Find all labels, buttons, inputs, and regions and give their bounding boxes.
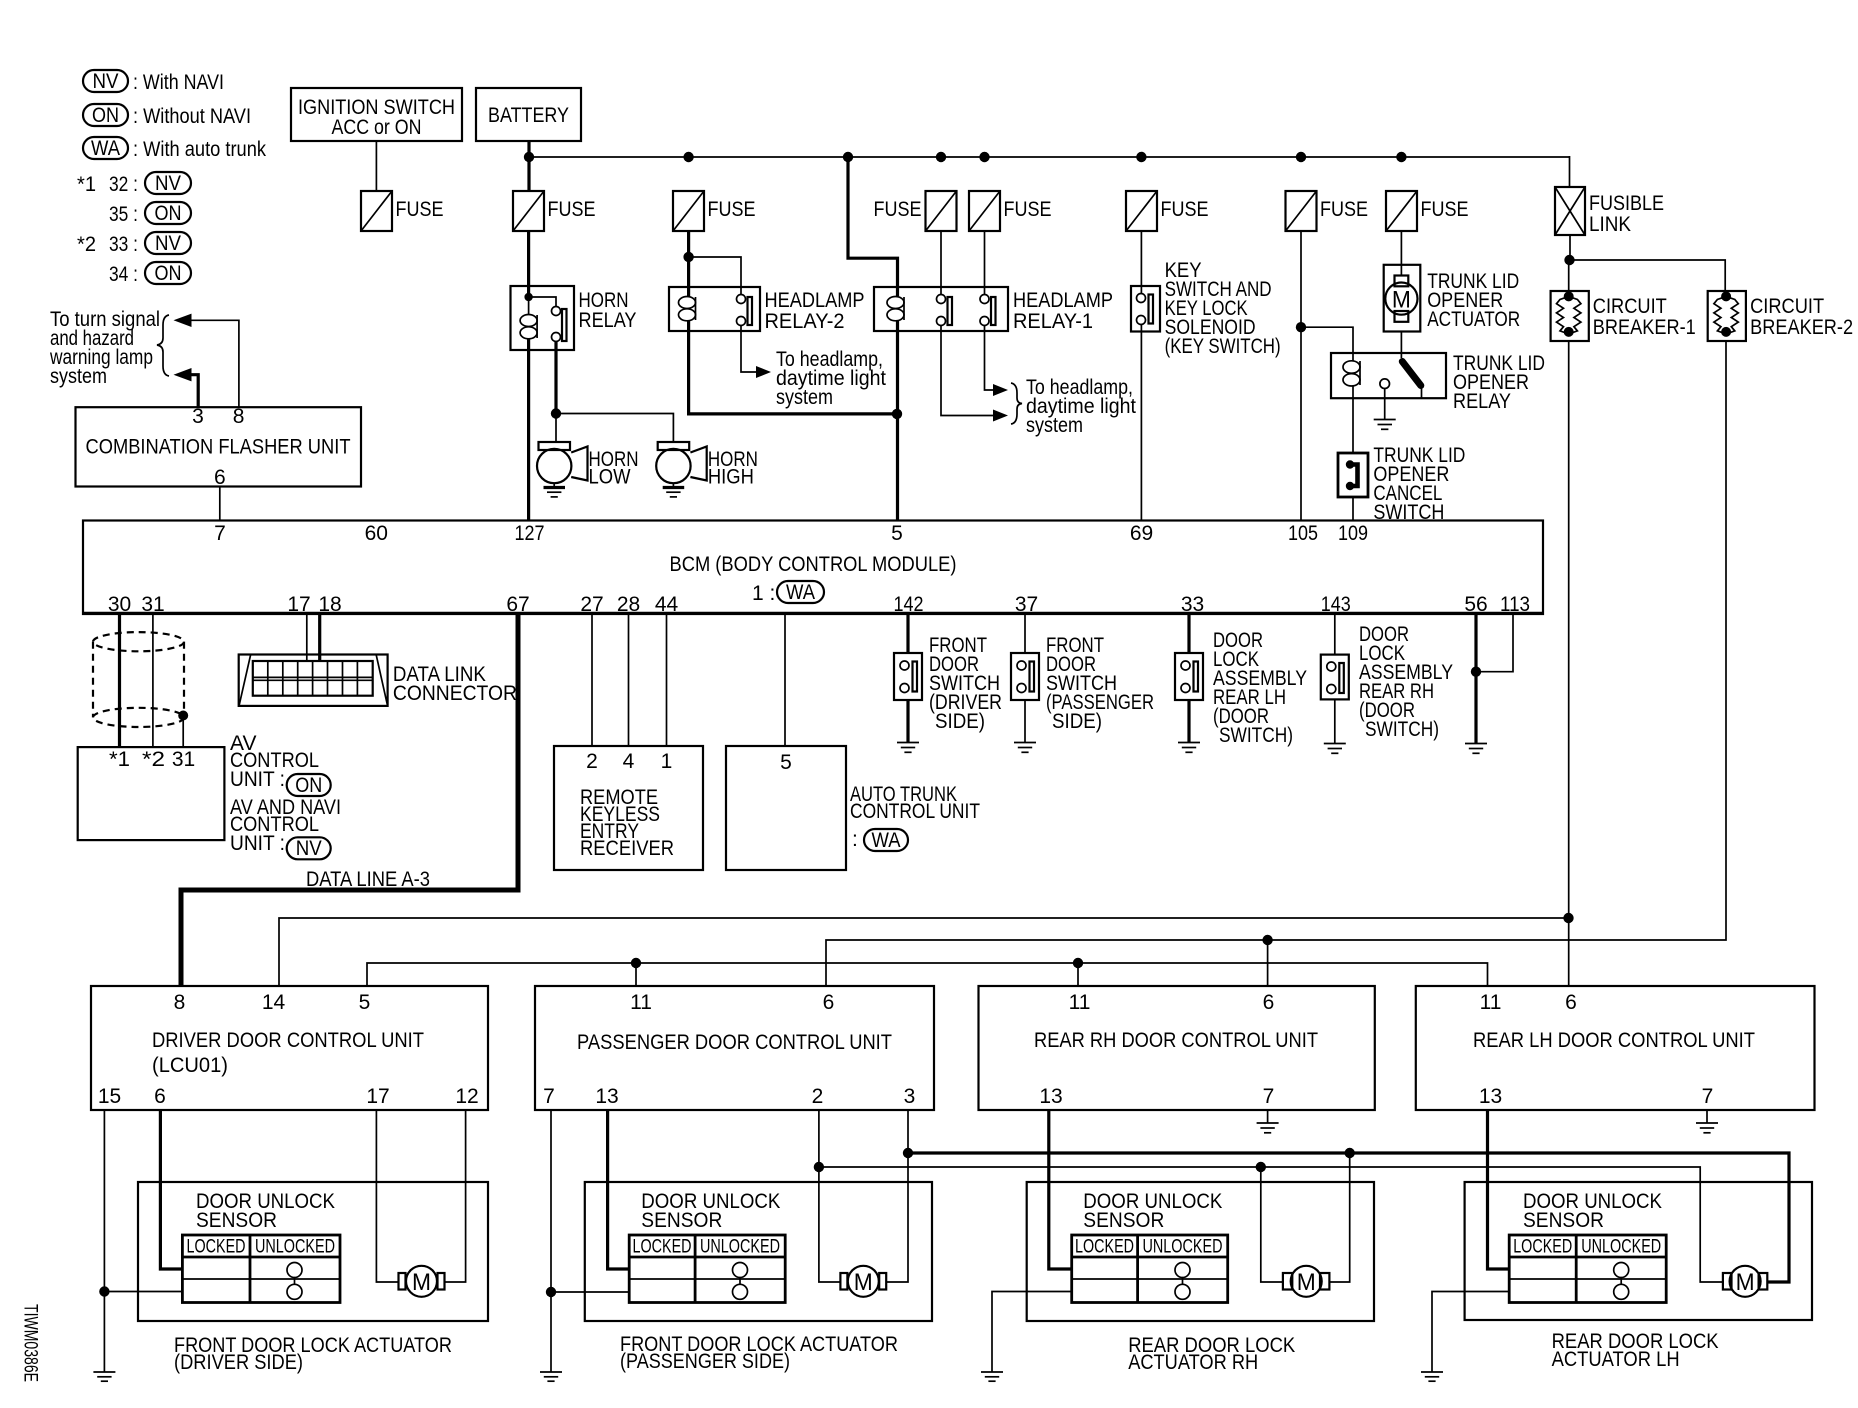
trunk lid opener cancel switch box (1338, 453, 1368, 497)
wire passenger CU 7 to ground and sensor (550, 1110, 552, 1372)
rear RH door motor (1283, 1266, 1330, 1297)
wire fuse F6 to key switch (1140, 231, 1142, 294)
node y1153 rear RH motor (1345, 1148, 1355, 1158)
arrow to headlamp (relay-2) (756, 366, 771, 378)
ground rear RH CU pin 7 (1257, 1110, 1279, 1133)
horn relay contact circles (552, 307, 561, 316)
svg-text:ON: ON (295, 774, 322, 797)
combination flasher unit box (76, 407, 362, 486)
svg-text:WA: WA (91, 137, 120, 160)
node passenger pin7 sensor tap (546, 1287, 556, 1297)
wire key switch to BCM pin 69 (1140, 325, 1142, 521)
svg-text:33: 33 (1181, 593, 1204, 616)
svg-text:7: 7 (1702, 1085, 1714, 1108)
wire junction to circuit breaker-2 (1570, 260, 1726, 291)
svg-text:ON: ON (92, 104, 119, 127)
front door switch passenger side (1011, 653, 1039, 700)
svg-text:5: 5 (891, 522, 903, 545)
node bus at 1401 (1396, 152, 1406, 162)
wire rear RH sensor row2 to ground (992, 1292, 1072, 1372)
svg-text:6: 6 (214, 466, 226, 489)
fusible link (1555, 187, 1585, 235)
passenger sensor contacts (733, 1263, 748, 1300)
wire actuator feed y1167 (819, 1167, 1723, 1282)
node y963 passenger 11 (631, 958, 641, 968)
wire passenger CU 2 to motor (819, 1110, 841, 1282)
svg-text:ACC or ON: ACC or ON (332, 116, 422, 139)
svg-text:COMBINATION FLASHER UNIT: COMBINATION FLASHER UNIT (86, 436, 351, 459)
horn relay internal wire to contact (529, 297, 556, 307)
wire fuse F3 to headlamp relay-2 (687, 231, 690, 296)
arrow to turn signal (upper, from CFU pin 8) (174, 314, 192, 327)
ground rear RH sensor (981, 1372, 1003, 1381)
svg-text:5: 5 (359, 991, 371, 1014)
svg-text:2: 2 (812, 1085, 824, 1108)
AV control unit box (78, 747, 225, 840)
node trunk relay feed (1296, 322, 1306, 332)
rear RH sensor table (1072, 1235, 1228, 1303)
svg-text:7: 7 (543, 1085, 555, 1108)
svg-text:CIRCUIT: CIRCUIT (1593, 295, 1667, 318)
svg-text:SIDE): SIDE) (1052, 710, 1102, 733)
svg-text:: Without NAVI: : Without NAVI (133, 105, 251, 128)
front door lock actuator passenger box (585, 1182, 932, 1321)
svg-text:13: 13 (1479, 1085, 1502, 1108)
key switch and key lock solenoid box (1131, 286, 1160, 332)
trunk relay coil (1343, 361, 1360, 386)
svg-text:56: 56 (1464, 593, 1487, 616)
svg-text:ACTUATOR RH: ACTUATOR RH (1128, 1351, 1258, 1374)
svg-text:: With NAVI: : With NAVI (133, 71, 224, 94)
ground trunk relay contact (1374, 389, 1396, 430)
svg-text:127: 127 (515, 522, 545, 545)
driver sensor table (182, 1235, 340, 1303)
horn relay box (511, 286, 575, 350)
wire cancel switch to BCM pin 109 (1352, 497, 1354, 521)
wire bus y918 driver 14 to CB-1 line (279, 918, 1569, 986)
svg-text:ACTUATOR LH: ACTUATOR LH (1552, 1348, 1680, 1371)
ground driver pin 15 (93, 1372, 115, 1381)
rear RH sensor contacts (1175, 1263, 1190, 1300)
svg-text:14: 14 (262, 991, 286, 1014)
svg-text:UNLOCKED: UNLOCKED (255, 1237, 335, 1258)
driver door control unit box (91, 986, 488, 1110)
wire trunk actuator to relay blade (1400, 332, 1402, 359)
svg-text:RECEIVER: RECEIVER (580, 837, 674, 860)
svg-text:CIRCUIT: CIRCUIT (1750, 295, 1824, 318)
circuit breaker-2 (1708, 291, 1746, 341)
svg-text:RELAY: RELAY (1453, 390, 1511, 413)
wire relay-2 contact to arrow (741, 326, 757, 373)
svg-text:system: system (50, 365, 107, 388)
node y1167 passenger pin 2 (814, 1162, 824, 1172)
svg-text:ON: ON (155, 202, 182, 225)
fuse F6 (key switch) (1126, 191, 1157, 231)
node y940 rear RH 6 (1262, 935, 1272, 945)
svg-text:28: 28 (617, 593, 640, 616)
BCM bottom edge emphasis (83, 612, 1543, 615)
trunk lid opener relay box (1331, 353, 1446, 398)
svg-text:BREAKER-1: BREAKER-1 (1593, 316, 1696, 339)
node relay-2 feed split (683, 252, 693, 262)
wire BCM 142 to driver door switch (thick) (906, 614, 909, 653)
fuse F1 (ignition) (361, 191, 392, 231)
wire BCM 113 to junction (1476, 614, 1513, 672)
wire trunk relay coil to cancel switch (1352, 386, 1354, 453)
svg-text:11: 11 (630, 991, 652, 1014)
wire feed to trunk relay coil (1301, 327, 1353, 361)
shield cylinder around AV wires (93, 632, 184, 727)
wire driver CU 6 to sensor row1 (thick) (160, 1110, 182, 1269)
wire CFU pin 8 to arrow (190, 320, 239, 407)
wire BCM 56 to ground (thick) (1474, 614, 1477, 743)
svg-text:NV: NV (155, 172, 181, 195)
node bus at 688 (683, 152, 693, 162)
wire rear RH CU pin 6 drop (1267, 940, 1269, 986)
rear door lock actuator RH box (1027, 1182, 1374, 1321)
svg-text:*2: *2 (77, 233, 96, 256)
rear door lock actuator LH box (1465, 1182, 1812, 1320)
trunk actuator motor (1385, 276, 1417, 322)
svg-text:(PASSENGER SIDE): (PASSENGER SIDE) (620, 1350, 790, 1373)
svg-text:37: 37 (1015, 593, 1038, 616)
node battery bus junction (524, 152, 534, 162)
svg-text:13: 13 (1039, 1085, 1062, 1108)
ignition switch box (291, 88, 462, 141)
headlamp relay-1 contact A (937, 295, 953, 326)
svg-text:DATA LINE A-3: DATA LINE A-3 (306, 868, 430, 891)
svg-text:FUSE: FUSE (548, 198, 596, 221)
ground BCM 56 (1465, 744, 1487, 754)
svg-text:44: 44 (655, 593, 679, 616)
node y963 rear RH 11 (1073, 958, 1083, 968)
node bus at 941 (936, 152, 946, 162)
wire actuator feed y1153 (thick) (908, 1153, 1789, 1282)
svg-text:system: system (776, 386, 833, 409)
arrow to headlamp upper (relay-1) (993, 384, 1008, 396)
wire BCM 1 to auto trunk control unit (784, 614, 786, 746)
wire passenger CU 13 to sensor row1 (thick) (608, 1110, 630, 1269)
svg-text:RELAY-1: RELAY-1 (1013, 310, 1093, 333)
auto trunk control unit box (726, 746, 846, 870)
svg-text:6: 6 (1263, 991, 1275, 1014)
svg-text:17: 17 (366, 1085, 389, 1108)
svg-text:5: 5 (780, 751, 792, 774)
horn relay coil (520, 297, 537, 339)
wire CB-1 down through node to rear LH CU pin 6 (1568, 341, 1570, 986)
svg-text:FUSE: FUSE (1004, 198, 1052, 221)
ground horn high (663, 483, 685, 497)
front door lock actuator driver box (138, 1182, 488, 1321)
svg-text:3: 3 (904, 1085, 916, 1108)
svg-text:BATTERY: BATTERY (488, 104, 569, 127)
svg-text:CONTROL UNIT: CONTROL UNIT (850, 800, 980, 823)
svg-text:27: 27 (580, 593, 603, 616)
wire fusible link to CB junction (1569, 235, 1571, 260)
ground passenger pin 7 (540, 1372, 562, 1381)
circuit breaker-1 (1551, 291, 1589, 341)
svg-text:HIGH: HIGH (708, 466, 754, 489)
fuse F3 (headlamp relay-2) (673, 191, 704, 231)
arrow to turn signal (lower, from CFU pin 3) (174, 368, 192, 381)
svg-text:PASSENGER DOOR CONTROL UNIT: PASSENGER DOOR CONTROL UNIT (577, 1031, 892, 1054)
svg-text:FUSE: FUSE (1320, 198, 1368, 221)
svg-text:WA: WA (872, 829, 901, 852)
cancel switch symbol (1346, 460, 1358, 490)
wire BCM 143 to rear RH door lock assembly (1334, 614, 1336, 655)
wire horn feed line (556, 414, 673, 443)
svg-text:FUSE: FUSE (874, 198, 922, 221)
svg-text:11: 11 (1480, 991, 1502, 1014)
svg-text:(KEY SWITCH): (KEY SWITCH) (1165, 335, 1281, 358)
trunk lid opener actuator box (1384, 265, 1421, 332)
svg-text:LOCKED: LOCKED (1513, 1237, 1572, 1258)
svg-text:HEADLAMP: HEADLAMP (765, 289, 865, 312)
svg-text:*2: *2 (142, 748, 165, 771)
driver door motor (399, 1266, 445, 1297)
svg-text:RELAY: RELAY (579, 309, 637, 332)
wire fuse F4 to relay-1 contact A (940, 231, 942, 295)
wire horn relay contact down to horn node (554, 342, 557, 414)
node y918 at CB-1 line (1563, 913, 1573, 923)
ground driver door switch (897, 700, 919, 752)
svg-text:4: 4 (623, 750, 635, 773)
passenger door motor (840, 1266, 886, 1297)
svg-text:M: M (1736, 1269, 1755, 1296)
horn low (537, 442, 588, 483)
wire BCM 33 to rear LH door lock assembly (thick) (1187, 614, 1190, 653)
node pin56/113 junction (1471, 667, 1481, 677)
wire CFU pin 6 to BCM pin 7 (219, 487, 221, 521)
wire rear LH CU 13 to sensor row1 (thick) (1488, 1110, 1510, 1269)
svg-text:8: 8 (233, 405, 245, 428)
svg-text:UNIT :: UNIT : (230, 768, 285, 791)
svg-text:30: 30 (108, 593, 131, 616)
svg-text:143: 143 (1321, 593, 1351, 616)
svg-text:SWITCH): SWITCH) (1365, 718, 1439, 741)
brace headlamp note (1011, 383, 1022, 424)
fuse F7 (trunk relay) (1286, 191, 1317, 231)
horn relay internal node (524, 293, 532, 301)
svg-text:ACTUATOR: ACTUATOR (1427, 308, 1520, 331)
svg-text:67: 67 (506, 593, 529, 616)
svg-text:SENSOR: SENSOR (641, 1209, 722, 1232)
battery box (476, 88, 581, 141)
svg-text:CONNECTOR: CONNECTOR (393, 682, 517, 705)
fuse F2 (battery/horn) (513, 191, 544, 231)
svg-text:LOCKED: LOCKED (633, 1237, 692, 1258)
svg-text:31: 31 (141, 593, 164, 616)
wire BCM 30 to AV unit (thick) (118, 614, 121, 747)
legend ON oval (83, 104, 128, 126)
svg-text:LOCKED: LOCKED (1075, 1237, 1134, 1258)
rear RH door control unit box (979, 986, 1375, 1110)
node shield drain (178, 711, 188, 721)
horn high (656, 442, 707, 483)
svg-text:35 :: 35 : (109, 203, 138, 226)
node y1167 rear RH motor (1256, 1162, 1266, 1172)
wire horn relay coil to BCM pin 127 (thick) (527, 339, 530, 521)
wire bus y963 driver 5 to rear LH 11 (367, 963, 1488, 986)
svg-text:UNIT :: UNIT : (230, 832, 285, 855)
door lock assembly rear RH switch (1321, 655, 1349, 700)
svg-text:8: 8 (174, 991, 186, 1014)
ground passenger door switch (1014, 700, 1036, 752)
svg-text:60: 60 (365, 522, 388, 545)
svg-text::: : (852, 828, 858, 851)
svg-text:(LCU01): (LCU01) (152, 1054, 228, 1077)
wire battery fuse to horn relay (thick) (527, 231, 530, 297)
svg-text:32 :: 32 : (109, 173, 138, 196)
svg-text:REAR LH DOOR CONTROL UNIT: REAR LH DOOR CONTROL UNIT (1473, 1029, 1755, 1052)
svg-text:FUSE: FUSE (1421, 198, 1469, 221)
wire passenger CU pin 11 drop (635, 963, 637, 986)
svg-text:13: 13 (595, 1085, 618, 1108)
svg-text:FUSE: FUSE (708, 198, 756, 221)
svg-text:SENSOR: SENSOR (196, 1209, 277, 1232)
wire relay-1 contact B to arrow (upper) (985, 326, 995, 391)
svg-text:NV: NV (93, 70, 119, 93)
svg-text:18: 18 (318, 593, 341, 616)
svg-text:system: system (1026, 414, 1083, 437)
BCM pin 1 WA label (752, 581, 824, 605)
svg-text:ON: ON (155, 262, 182, 285)
wire bus corner down to fusible link (1569, 156, 1571, 187)
svg-text:1 :: 1 : (752, 582, 775, 605)
wire driver sensor row2 tap (104, 1291, 182, 1293)
passenger sensor table (629, 1235, 785, 1303)
wire fuse F8 to trunk actuator (1400, 231, 1402, 276)
svg-text:7: 7 (1263, 1085, 1275, 1108)
passenger door control unit box (535, 986, 934, 1110)
headlamp relay-1 contact B (980, 295, 996, 326)
svg-text:DRIVER DOOR CONTROL UNIT: DRIVER DOOR CONTROL UNIT (152, 1029, 424, 1052)
rear LH door control unit box (1416, 986, 1815, 1110)
node bus at 848 (843, 152, 853, 162)
node bus at 984 (979, 152, 989, 162)
svg-text:LOCKED: LOCKED (187, 1237, 246, 1258)
legend NV oval (83, 70, 128, 92)
wire BCM 18 to data link connector (thick) (318, 614, 321, 661)
svg-text:M: M (1297, 1269, 1316, 1296)
rear LH door motor (1723, 1266, 1767, 1297)
headlamp relay-2 contact (737, 295, 753, 326)
wire rear RH motor left drop (1261, 1167, 1283, 1282)
ground rear LH door switch (1178, 700, 1200, 752)
wire shield drain to AV pin 31 (182, 716, 184, 748)
wire rear RH CU pin 11 drop (1077, 963, 1079, 986)
svg-text:31: 31 (172, 748, 195, 771)
wire BCM 17 to data link connector (306, 614, 308, 661)
svg-text:SENSOR: SENSOR (1083, 1209, 1164, 1232)
svg-text:7: 7 (214, 522, 226, 545)
arrow to headlamp lower (relay-1) (993, 410, 1008, 422)
node bus at 1141 (1136, 152, 1146, 162)
svg-text:6: 6 (154, 1085, 166, 1108)
svg-text:FUSE: FUSE (1161, 198, 1209, 221)
svg-text:33 :: 33 : (109, 233, 138, 256)
wire driver CU 17 to motor (376, 1110, 398, 1282)
wire BCM 67 data line A-3 (extra thick) (181, 614, 518, 986)
svg-text:12: 12 (455, 1085, 478, 1108)
trunk relay blade (thick switch) (1402, 362, 1421, 399)
rear LH sensor table (1509, 1235, 1666, 1303)
headlamp relay-1 coil (887, 297, 904, 321)
wire driver CU 12 to motor (445, 1110, 466, 1282)
wire ignition switch to fuse (375, 141, 377, 191)
svg-text:69: 69 (1130, 522, 1153, 545)
svg-text:FUSIBLE: FUSIBLE (1589, 192, 1664, 215)
wire relay-2 feed to contact (689, 257, 741, 295)
wire BCM 27 to keyless receiver (591, 614, 593, 746)
wire fuse F5 to relay-1 contact B (984, 231, 986, 295)
wire battery to bus (thick) (527, 141, 530, 191)
fuse F5 (headlamp relay-1 contact B) (969, 191, 1000, 231)
svg-text:113: 113 (1500, 593, 1530, 616)
svg-text:105: 105 (1288, 522, 1318, 545)
legend WA oval (83, 137, 128, 159)
wire relay-1 contact A to arrow (lower) (941, 326, 994, 416)
horn relay contact bar (562, 309, 567, 341)
headlamp relay-2 coil (679, 297, 696, 321)
svg-text:WA: WA (786, 581, 815, 604)
front door switch driver side (894, 653, 922, 700)
svg-text:SWITCH): SWITCH) (1219, 724, 1293, 747)
fuse F4 (headlamp relay-1 contact A, label left) (926, 191, 957, 231)
driver sensor contacts (287, 1263, 302, 1300)
ground rear LH sensor (1421, 1372, 1443, 1381)
wire junction to circuit breaker-1 (1568, 260, 1570, 291)
wire BCM 31 to AV unit (152, 614, 154, 747)
headlamp relay-1 box (874, 287, 1008, 331)
wire rear RH CU 13 to sensor row1 (thick) (1049, 1110, 1072, 1269)
svg-text:HEADLAMP: HEADLAMP (1013, 289, 1113, 312)
svg-text:UNLOCKED: UNLOCKED (1143, 1237, 1223, 1258)
svg-text:REAR RH DOOR CONTROL UNIT: REAR RH DOOR CONTROL UNIT (1034, 1029, 1318, 1052)
svg-text:34 :: 34 : (109, 263, 138, 286)
bus wire battery feed (529, 156, 1570, 158)
fuse F8 (trunk actuator) (1386, 191, 1417, 231)
wire relay-2 coil to node (thick) (689, 321, 897, 414)
svg-text:LINK: LINK (1589, 213, 1631, 236)
headlamp relay-2 box (669, 287, 760, 331)
svg-text:M: M (854, 1269, 873, 1296)
svg-text:RELAY-2: RELAY-2 (765, 310, 845, 333)
node relay coils junction (892, 409, 902, 419)
ground rear LH CU pin 7 (1696, 1110, 1718, 1133)
svg-text:6: 6 (823, 991, 835, 1014)
wire BCM 44 to keyless receiver (666, 614, 668, 746)
svg-text:SIDE): SIDE) (935, 710, 985, 733)
svg-text:: With auto trunk: : With auto trunk (133, 138, 266, 161)
svg-text:3: 3 (192, 405, 204, 428)
svg-text:1: 1 (661, 750, 673, 773)
ground rear RH door switch (1324, 699, 1346, 753)
svg-text:11: 11 (1069, 991, 1091, 1014)
wire horn low drop (555, 414, 557, 443)
trunk relay contact circle (1380, 379, 1390, 389)
svg-text:NV: NV (155, 232, 181, 255)
svg-text:UNLOCKED: UNLOCKED (1581, 1237, 1661, 1258)
svg-text:(DRIVER SIDE): (DRIVER SIDE) (174, 1351, 303, 1374)
wire BCM 37 to passenger door switch (1024, 614, 1026, 653)
wire CB-2 down and bus y940 to passenger 6 (826, 341, 1726, 986)
node fusible link junction (1564, 255, 1574, 265)
remote keyless entry receiver box (554, 746, 703, 870)
wire fuse F7 to BCM pin 105 (1300, 231, 1302, 521)
node driver pin15 sensor tap (99, 1286, 109, 1296)
svg-text:BCM (BODY CONTROL MODULE): BCM (BODY CONTROL MODULE) (670, 553, 957, 576)
